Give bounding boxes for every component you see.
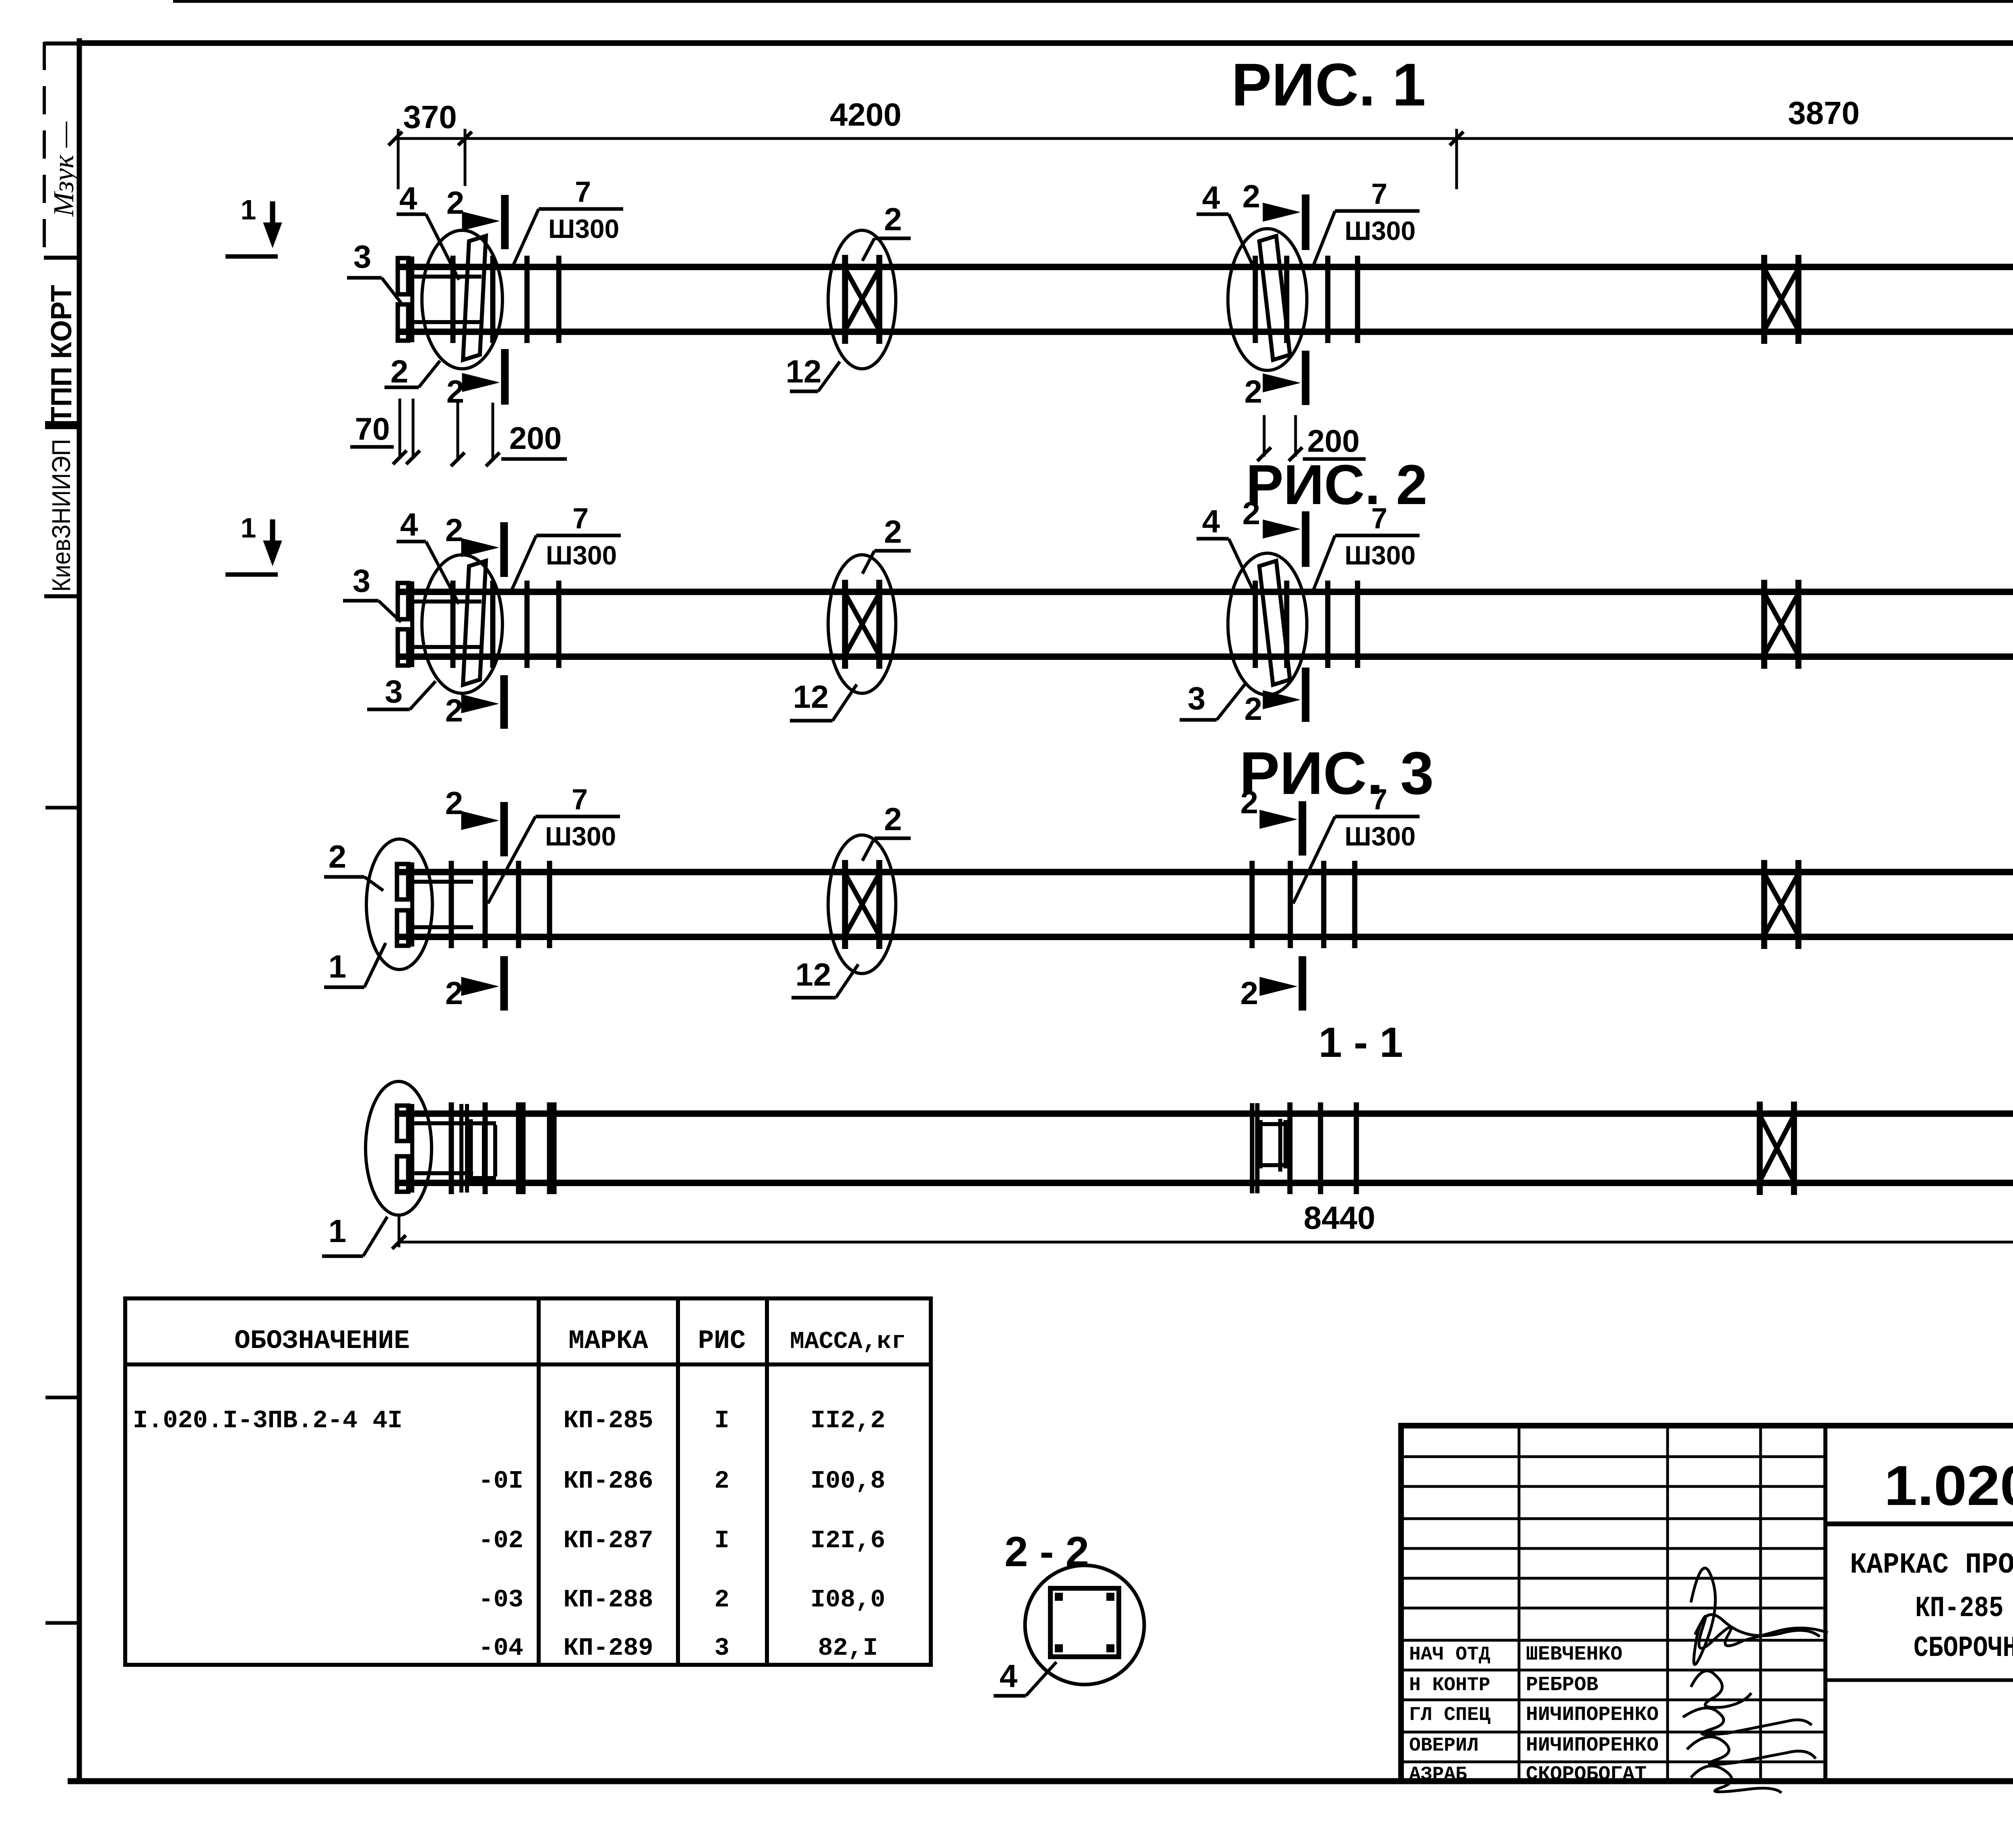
beam 1 middle joint detail oval — [1228, 229, 1307, 370]
svg-text:I2I,6: I2I,6 — [810, 1526, 885, 1555]
svg-text:МАССА,кг: МАССА,кг — [790, 1328, 906, 1356]
svg-text:2: 2 — [445, 512, 463, 548]
svg-text:3: 3 — [714, 1634, 729, 1662]
svg-text:КП-285: КП-285 — [563, 1406, 653, 1435]
svg-text:2: 2 — [329, 839, 347, 874]
drawing title text — [1850, 1548, 2013, 1665]
svg-text:ТПП КОРТ: ТПП КОРТ — [45, 285, 78, 424]
section 1-1 left stirrups — [523, 1102, 554, 1194]
fold mark left 2 — [45, 1396, 79, 1399]
frame top edge — [79, 40, 2013, 46]
scan artifact top edge — [173, 0, 2013, 3]
weld label 7 Ш300 (beam 1 left) — [512, 176, 623, 268]
beam 3 left detail oval — [366, 839, 432, 969]
beam 1 bottom chord — [398, 329, 2013, 335]
beam 3 top chord — [397, 869, 2013, 875]
label 2 (beam 3 mid-span) — [862, 801, 911, 861]
beam 2 middle joint detail oval — [1228, 553, 1307, 695]
frame bottom edge — [68, 1778, 2013, 1784]
svg-text:370: 370 — [403, 99, 457, 135]
section mark 2 bottom (beam 3 left) — [445, 956, 504, 1011]
svg-text:Н КОНТР: Н КОНТР — [1409, 1674, 1490, 1696]
beam 2 mid-span lattice X-brace — [845, 580, 879, 669]
svg-text:РИС. 1: РИС. 1 — [1232, 51, 1426, 118]
beam 2 top chord — [398, 589, 2013, 595]
dim tick — [1450, 132, 1463, 145]
beam 3 mid-span lattice X-brace — [845, 860, 879, 949]
svg-text:МАРКА: МАРКА — [568, 1326, 648, 1356]
svg-text:2: 2 — [1242, 495, 1261, 531]
dimension 200 (beam 1 middle) — [1257, 415, 1366, 461]
svg-text:СБОРОЧНЫЙ ЧЕРТЕЖ: СБОРОЧНЫЙ ЧЕРТЕЖ — [1914, 1631, 2013, 1665]
beam 3 left end assembly — [397, 861, 550, 948]
section mark 2 bottom (beam 3 middle) — [1240, 956, 1302, 1011]
svg-text:7: 7 — [1371, 178, 1387, 210]
section mark 2 top (beam 2 left) — [445, 512, 504, 577]
svg-text:РЕБРОВ: РЕБРОВ — [1526, 1674, 1598, 1697]
svg-text:ОВЕРИЛ: ОВЕРИЛ — [1409, 1735, 1479, 1757]
weld label 7 Ш300 (beam 2 middle) — [1313, 502, 1420, 590]
svg-text:4200: 4200 — [830, 97, 901, 132]
beam 3 bottom chord — [397, 934, 2013, 940]
label 3 (beam 2 middle joint) — [1180, 680, 1245, 720]
dim tick — [389, 132, 402, 145]
table row 3 — [478, 1526, 885, 1555]
svg-text:1: 1 — [241, 194, 256, 225]
section mark 2 top (beam 2 middle) — [1242, 495, 1306, 567]
label 12 (beam 2 mid-span) — [790, 679, 857, 721]
section mark 2 top (beam 1 left) — [446, 185, 505, 249]
svg-text:8440: 8440 — [1304, 1200, 1375, 1236]
label 1 (beam 3 left) — [324, 943, 386, 987]
svg-text:-02: -02 — [478, 1526, 523, 1555]
stamp strip signature — [48, 121, 80, 217]
svg-text:СКОРОБОГАТ: СКОРОБОГАТ — [1526, 1763, 1647, 1786]
stamp strip text КиевЗНИИЭП — [47, 439, 76, 592]
table row 2 — [478, 1467, 885, 1495]
beam 1 top chord — [398, 264, 2013, 270]
svg-text:2: 2 — [391, 353, 409, 389]
weld label 7 Ш300 (beam 3 left) — [488, 783, 620, 903]
table row 1 — [133, 1406, 885, 1435]
stamp strip text ТПП КОРТ — [45, 285, 78, 424]
svg-text:2: 2 — [1244, 691, 1263, 727]
svg-text:2: 2 — [446, 374, 465, 409]
section 1-1 middle joint — [1252, 1102, 1356, 1194]
svg-text:КП-289: КП-289 — [563, 1634, 653, 1662]
beam 2 middle joint — [1255, 561, 1358, 685]
svg-text:I08,0: I08,0 — [810, 1585, 885, 1614]
weld label 7 Ш300 (beam 2 left) — [510, 502, 621, 593]
beam 1 middle joint — [1255, 236, 1358, 360]
svg-text:3: 3 — [353, 563, 371, 599]
label 12 (beam 1 mid-span) — [786, 353, 840, 391]
svg-text:Ш300: Ш300 — [546, 540, 617, 570]
beam 1 mid-span detail oval — [828, 230, 896, 369]
svg-text:12: 12 — [796, 957, 831, 992]
svg-text:НИЧИПОРЕНКО: НИЧИПОРЕНКО — [1526, 1703, 1659, 1726]
svg-text:КП-286: КП-286 — [563, 1467, 653, 1495]
stamp strip box bottom tick — [44, 256, 79, 260]
svg-text:3: 3 — [353, 239, 372, 275]
section mark 2 top (beam 3 left) — [445, 785, 504, 856]
beam 2 left end assembly — [398, 561, 559, 685]
svg-text:2: 2 — [1244, 374, 1263, 409]
svg-text:4: 4 — [1202, 503, 1220, 539]
svg-text:РИС: РИС — [698, 1326, 746, 1356]
section 1-1 left detail oval — [366, 1081, 432, 1215]
svg-text:1 - 1: 1 - 1 — [1319, 1019, 1403, 1066]
extension line 4200 — [1455, 129, 1458, 189]
svg-text:Ш300: Ш300 — [1345, 540, 1416, 570]
svg-text:I: I — [714, 1526, 729, 1555]
svg-text:12: 12 — [786, 353, 822, 389]
svg-text:3: 3 — [1188, 680, 1206, 716]
beam 2 left detail oval — [422, 555, 502, 693]
svg-text:2: 2 — [445, 975, 463, 1011]
title block row labels — [1409, 1644, 1490, 1786]
section 1-1 top chord — [397, 1110, 2013, 1117]
weld label 7 Ш300 (beam 3 middle) — [1293, 783, 1420, 903]
svg-text:1: 1 — [329, 1213, 347, 1249]
svg-text:7: 7 — [572, 783, 588, 816]
section mark 2 bottom (beam 1 left) — [446, 349, 505, 409]
beam 1 left end assembly — [398, 236, 559, 360]
section mark 2 bottom (beam 1 middle) — [1244, 351, 1306, 409]
section mark 2 top (beam 3 middle) — [1240, 784, 1302, 856]
svg-text:7: 7 — [1371, 502, 1387, 535]
section 1-1 left channel — [461, 1104, 496, 1193]
svg-text:Ш300: Ш300 — [548, 214, 619, 244]
svg-text:РИС. 3: РИС. 3 — [1240, 739, 1434, 807]
section mark 2 bottom (beam 2 left) — [445, 675, 504, 729]
fold mark left 3 — [45, 1621, 79, 1625]
svg-text:2: 2 — [1242, 178, 1261, 214]
beam 1 left detail oval — [422, 230, 502, 369]
label 2 (beam 2 mid-span) — [862, 514, 911, 574]
svg-text:Ш300: Ш300 — [545, 821, 616, 851]
weld label 7 Ш300 (beam 1 middle) — [1313, 178, 1420, 266]
svg-text:I: I — [714, 1406, 729, 1435]
svg-text:НИЧИПОРЕНКО: НИЧИПОРЕНКО — [1526, 1734, 1659, 1757]
svg-text:КП-288: КП-288 — [563, 1585, 653, 1614]
label 4 (beam 2 middle joint) — [1197, 503, 1253, 590]
svg-text:ГЛ СПЕЦ: ГЛ СПЕЦ — [1409, 1704, 1490, 1726]
svg-text:Ш300: Ш300 — [1345, 216, 1416, 246]
svg-text:Мзук —: Мзук — — [48, 121, 80, 217]
svg-text:КАРКАС ПРОСТРАНСТВЕННЫЙ: КАРКАС ПРОСТРАНСТВЕННЫЙ — [1850, 1548, 2013, 1581]
stamp strip divider — [45, 421, 79, 429]
svg-text:-04: -04 — [478, 1634, 523, 1662]
svg-text:4: 4 — [400, 506, 418, 542]
svg-text:АЗРАБ: АЗРАБ — [1409, 1764, 1467, 1786]
title name cell bottom line — [1825, 1678, 2013, 1682]
section 1-1 lattice X-brace — [1760, 1102, 1794, 1195]
label 3 (beam 1 left) — [347, 239, 401, 303]
svg-text:II2,2: II2,2 — [810, 1406, 885, 1435]
beam 1 mid-span lattice X-brace — [845, 255, 879, 344]
label 3 (beam 2 left bottom) — [367, 674, 436, 709]
stamp strip dashed edge — [43, 42, 46, 258]
section 1-1 bottom chord — [397, 1180, 2013, 1186]
title block document number cell — [1825, 1521, 2013, 1526]
svg-text:2: 2 — [884, 514, 902, 550]
title block signatures — [1683, 1568, 1828, 1793]
svg-text:4: 4 — [1202, 180, 1220, 215]
dimension 8440 — [392, 1200, 2013, 1273]
label 4 (beam 2 left) — [397, 506, 459, 604]
beam 3 right lattice X-brace — [1764, 860, 1798, 949]
svg-text:КиевЗНИИЭП: КиевЗНИИЭП — [47, 439, 76, 592]
svg-text:200: 200 — [509, 420, 562, 456]
dimension 70 — [350, 399, 420, 464]
svg-text:-0I: -0I — [478, 1467, 523, 1495]
section mark 2 top (beam 1 middle) — [1242, 178, 1306, 250]
label 4 (detail 2-2) — [994, 1658, 1056, 1696]
frame left edge — [77, 38, 82, 1781]
svg-text:4: 4 — [1000, 1658, 1018, 1694]
dimension line 370/4200/3870 — [395, 137, 2013, 140]
svg-text:Ш300: Ш300 — [1345, 821, 1416, 851]
svg-text:2: 2 — [714, 1467, 729, 1495]
extension line 370 — [464, 129, 467, 186]
svg-text:2: 2 — [714, 1585, 729, 1614]
svg-text:ОБОЗНАЧЕНИЕ: ОБОЗНАЧЕНИЕ — [234, 1326, 410, 1356]
stamp strip bottom tick — [44, 594, 79, 598]
title block outer frame — [1401, 1426, 2013, 1781]
beam 2 mid-span detail oval — [828, 555, 896, 693]
label 4 (beam 1 middle joint) — [1197, 180, 1253, 266]
svg-text:РИС. 2: РИС. 2 — [1246, 453, 1428, 516]
beam 1 right lattice X-brace — [1764, 255, 1798, 344]
label 1 (section 1-1) — [322, 1213, 387, 1256]
extension line left — [397, 129, 400, 189]
fold mark left 1 — [45, 806, 79, 810]
svg-text:3: 3 — [385, 674, 403, 709]
svg-text:3870: 3870 — [1788, 95, 1860, 131]
svg-text:КП-287: КП-287 — [563, 1526, 653, 1555]
svg-text:2: 2 — [884, 201, 902, 237]
svg-text:КП-285 - КП-289.: КП-285 - КП-289. — [1915, 1592, 2013, 1625]
svg-text:2: 2 — [445, 692, 463, 728]
svg-text:12: 12 — [793, 679, 829, 715]
title block names — [1526, 1643, 1659, 1786]
section mark 2 bottom (beam 2 middle) — [1244, 668, 1306, 727]
svg-text:82,I: 82,I — [818, 1634, 878, 1662]
table row 5 — [478, 1634, 878, 1662]
label 12 (beam 3 mid-span) — [792, 957, 858, 998]
beam 2 bottom chord — [398, 653, 2013, 660]
table row 4 — [478, 1585, 885, 1614]
svg-text:2: 2 — [1240, 975, 1259, 1011]
stamp strip top tick — [44, 41, 79, 45]
dim tick — [458, 132, 472, 145]
svg-text:1: 1 — [329, 949, 347, 984]
parts table frame — [125, 1298, 931, 1665]
svg-text:7: 7 — [572, 502, 589, 535]
svg-text:НАЧ ОТД: НАЧ ОТД — [1409, 1644, 1490, 1666]
svg-text:1: 1 — [241, 512, 256, 544]
detail 2-2 circle — [1025, 1565, 1144, 1685]
svg-text:7: 7 — [1371, 783, 1387, 816]
svg-text:2: 2 — [445, 785, 463, 821]
beam 2 right lattice X-brace — [1764, 580, 1798, 669]
svg-text:1.020.1-3ПВ.2-4 41СБ: 1.020.1-3ПВ.2-4 41СБ — [1884, 1454, 2013, 1517]
label 4 (beam 1 left) — [397, 180, 459, 280]
section mark 1 left (beam 1) — [225, 194, 282, 256]
detail 2-2 square section — [1050, 1588, 1119, 1657]
label 3 (beam 2 left top) — [343, 563, 401, 622]
svg-text:7: 7 — [575, 176, 591, 208]
svg-text:2 - 2: 2 - 2 — [1004, 1528, 1089, 1575]
svg-text:I00,8: I00,8 — [810, 1467, 885, 1495]
label 2 (beam 1 mid-span) — [862, 201, 911, 261]
title block left grid — [1401, 1426, 1825, 1781]
svg-text:I.020.I-3ПВ.2-4 4I: I.020.I-3ПВ.2-4 4I — [133, 1406, 403, 1435]
svg-text:70: 70 — [355, 411, 390, 446]
section 1-1 left end assembly — [397, 1102, 550, 1194]
beam 3 mid-span detail oval — [828, 835, 896, 974]
svg-text:2: 2 — [1240, 784, 1259, 820]
beam 3 middle stirrups — [1252, 861, 1355, 948]
svg-text:ШЕВЧЕНКО: ШЕВЧЕНКО — [1526, 1643, 1622, 1666]
label 2 (beam 3 left) — [324, 839, 383, 891]
dimension 200 (beam 1 left) — [451, 403, 567, 466]
svg-text:2: 2 — [446, 185, 465, 221]
svg-text:4: 4 — [399, 180, 417, 216]
section mark 1 left (beam 2) — [225, 512, 282, 575]
label 2 (beam 1 left bottom) — [384, 353, 440, 389]
svg-text:-03: -03 — [478, 1585, 523, 1614]
svg-text:2: 2 — [884, 801, 902, 837]
